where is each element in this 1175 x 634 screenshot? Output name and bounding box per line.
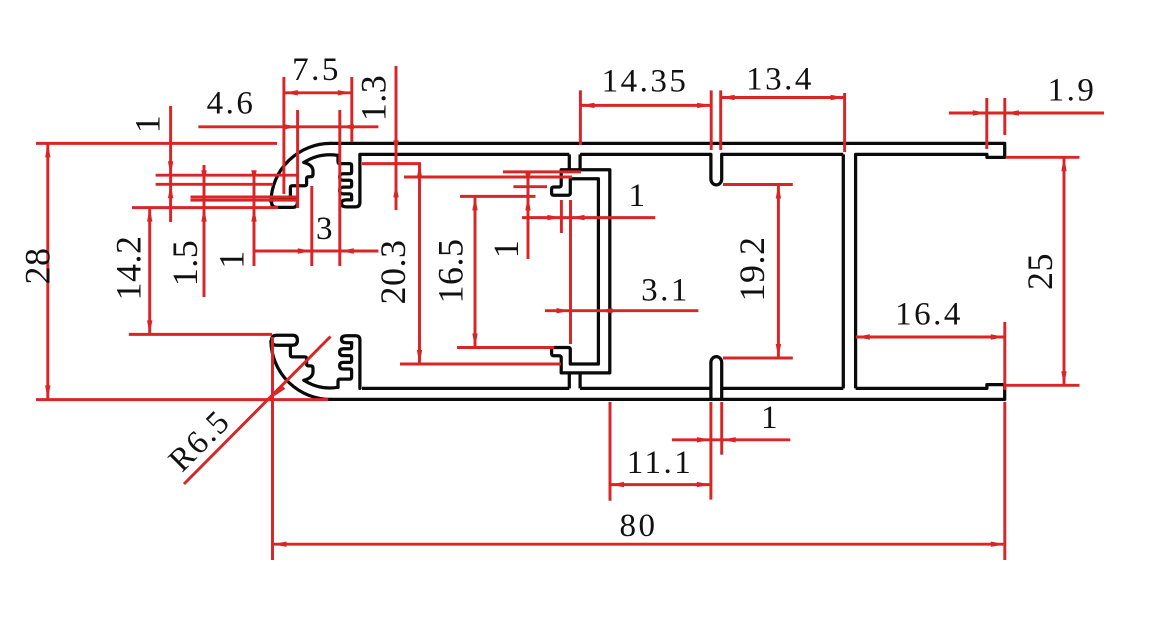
ext line y=184.3 tooth bottom — [156, 183, 273, 186]
svg-text:80: 80 — [620, 508, 658, 544]
dim 3 line — [254, 250, 379, 253]
dim 14.35 line — [580, 104, 711, 107]
bottom hook2 teeth — [338, 343, 352, 388]
top wall inner line seg wall-slot — [722, 153, 844, 156]
ext line y=175.2 tooth top — [156, 174, 297, 177]
dim 14.35 right arrow — [697, 103, 711, 108]
ext line y=334.4 bottom foot top — [129, 333, 272, 336]
dim 1 left-mid up arrow — [251, 208, 256, 222]
svg-text:4.6: 4.6 — [207, 86, 256, 122]
dim 7.5 right arrow — [338, 90, 352, 95]
svg-text:1.5: 1.5 — [165, 240, 205, 287]
ext line x=580.4 — [579, 90, 582, 145]
ext line x=351.8 — [350, 77, 353, 142]
dim 1.9 line — [949, 112, 1104, 115]
ext line x=710.9 — [709, 402, 712, 500]
ext line x=720.7 — [719, 90, 722, 150]
dim 4.6 right-pointing arrow — [284, 124, 298, 129]
dim 14.35 left arrow — [580, 103, 594, 108]
dim 16.5 vertical line — [474, 196, 477, 347]
dim 7.5 left arrow — [284, 90, 298, 95]
dim 1 web line — [522, 216, 655, 219]
dim 3.1 left-pointing arrow — [598, 308, 612, 313]
ext line y=200.2 — [191, 199, 298, 202]
dim 14.2 bottom arrow — [147, 320, 152, 334]
svg-text:1: 1 — [486, 238, 526, 259]
svg-text:16.5: 16.5 — [431, 239, 471, 304]
svg-text:28: 28 — [18, 248, 58, 285]
dim 1.5 up arrow — [201, 208, 206, 222]
ext line y=364 bottom arm — [400, 363, 561, 366]
ext line x=986.8 — [985, 98, 988, 149]
hook2 teeth — [338, 155, 352, 200]
bottom hook1 tooth and leg — [290, 345, 313, 380]
bottom right lip and bottom outer line — [331, 385, 1005, 400]
dim 1.5 down arrow — [201, 170, 206, 184]
dim 14.2 vertical line — [148, 208, 151, 335]
svg-text:20.3: 20.3 — [373, 240, 413, 305]
dim 16.5 bottom arrow — [472, 334, 477, 348]
bottom hook1 foot capsule — [272, 335, 298, 345]
svg-text:25: 25 — [1020, 253, 1060, 290]
dim 20.3 vertical line — [418, 164, 421, 364]
dim 19.2 vertical line — [777, 185, 780, 359]
ext line y=177 arm underside — [404, 176, 572, 179]
dim 1 upper-left down arrow — [168, 161, 173, 175]
svg-text:16.4: 16.4 — [895, 297, 963, 333]
ext line bottom-left y=399.6 — [36, 398, 328, 401]
top-left inner arc — [304, 155, 338, 163]
hook1 top-left tooth and leg — [290, 162, 313, 197]
svg-text:1.9: 1.9 — [1048, 73, 1097, 109]
svg-text:14.2: 14.2 — [109, 236, 149, 301]
ext line x=711.2 — [710, 90, 713, 150]
dim 80 line — [273, 543, 1005, 546]
ext line top-left y=143 — [36, 142, 277, 145]
dim 3 right-pointing arrow — [298, 248, 312, 253]
svg-text:13.4: 13.4 — [746, 62, 814, 98]
dim 13.4 left arrow — [721, 95, 735, 100]
dim 1.9 right-pointing arrow — [973, 110, 987, 115]
ext line y=207.6 foot bottom — [132, 206, 278, 209]
dim 1 hook-foot down arrow — [525, 173, 530, 187]
dim 3.1 right-pointing arrow — [557, 308, 571, 313]
middle wall right face — [854, 154, 857, 388]
dim 80 left arrow — [273, 542, 287, 547]
dim 1 left-mid down arrow — [251, 170, 256, 184]
top-left outer arc R6.5 — [271, 143, 331, 201]
dim 1 hook-foot vertical line — [527, 174, 530, 259]
bottom web right vertical — [578, 373, 581, 389]
dim 19.2 bottom arrow — [776, 344, 781, 358]
ext line y=347.5 bottom hook foot — [457, 346, 554, 349]
C-channel bottom arm and glazing hook — [552, 348, 610, 373]
bottom wall inner line seg web-slot — [580, 387, 711, 390]
bottom hook2 foot and right face — [342, 336, 360, 389]
dim 16.5 top arrow — [472, 196, 477, 210]
C-channel outer wall — [608, 170, 611, 372]
ext line x=610 — [609, 402, 612, 501]
dim 1.9 left-pointing arrow — [1005, 110, 1019, 115]
dim 19.2 top arrow — [776, 185, 781, 199]
dim 11.1 right arrow — [697, 482, 711, 487]
svg-text:7.5: 7.5 — [292, 52, 341, 88]
dim 1.3 up arrow — [393, 183, 398, 197]
dim 13.4 right arrow — [831, 95, 845, 100]
svg-text:1: 1 — [629, 178, 648, 214]
svg-text:1: 1 — [212, 248, 252, 269]
dim 1 web left-pointing arrow — [571, 215, 585, 220]
bottom web left vertical — [568, 373, 571, 389]
dim 1 slot line — [672, 438, 790, 441]
ext line x=721.7 — [720, 402, 723, 455]
ext line y=171.9 arm top — [503, 170, 581, 173]
ext line x=283.9 — [282, 77, 285, 194]
dim 80 right arrow — [991, 542, 1005, 547]
dim 14.2 top arrow — [147, 208, 152, 222]
ext line x=311.8 — [310, 186, 313, 266]
bottom wall inner line seg hook-web — [362, 387, 569, 390]
ext line x=561.4 — [560, 200, 563, 233]
svg-text:11.1: 11.1 — [627, 445, 694, 481]
dim 1.3 down arrow — [393, 140, 398, 154]
dim 16.4 line — [856, 336, 1005, 339]
dim 28 top arrow — [45, 143, 50, 157]
ext line y=385.3 bottom lip top — [1006, 384, 1080, 387]
dim 1.5 vertical line — [203, 165, 206, 297]
dim 1 slot right-pointing arrow — [697, 437, 711, 442]
top wall inner line seg web-hook — [360, 153, 569, 156]
top slot channel — [711, 154, 722, 185]
R6.5 leader arrowhead — [274, 385, 286, 397]
dim 1 web right-pointing arrow — [547, 215, 561, 220]
dim 1 left-mid vertical line — [253, 176, 256, 266]
ext line x=297.6 — [296, 110, 299, 208]
dim 25 vertical line — [1063, 157, 1066, 385]
C-channel inner wall — [597, 179, 600, 364]
dim 4.6 left-pointing arrow — [340, 124, 354, 129]
dim 28 bottom arrow — [45, 385, 50, 399]
svg-text:1: 1 — [761, 400, 780, 436]
ext line y=358 bottom slot top — [723, 357, 793, 360]
dim 13.4 line — [721, 96, 845, 99]
top wall outer line, right end lip — [331, 143, 1005, 157]
svg-text:19.2: 19.2 — [732, 237, 772, 302]
top wall inner line seg slot-web — [580, 153, 711, 156]
dim 28 vertical line — [46, 143, 49, 399]
ext line y=163.6 hook2 shelf — [362, 162, 421, 165]
top web right vertical — [578, 154, 581, 169]
dim 1.3 vertical line — [395, 66, 398, 210]
C-channel top arm and glazing hook — [552, 170, 610, 195]
dim 3 left-pointing arrow — [340, 248, 354, 253]
dim 16.4 left arrow — [856, 334, 870, 339]
dim 25 top arrow — [1061, 157, 1066, 171]
bottom wall inner line seg slot-wall — [722, 387, 844, 390]
dim 1 upper-left vertical line — [169, 106, 172, 222]
ext line x=1004.8 top — [1003, 98, 1006, 135]
svg-text:3.1: 3.1 — [641, 273, 690, 309]
hook1 foot capsule — [272, 198, 298, 208]
svg-text:14.35: 14.35 — [602, 64, 689, 100]
ext line x=1004.8 bottom — [1003, 402, 1006, 560]
dim 7.5 line — [284, 91, 352, 94]
ext line y=196.4 hook foot bottom — [460, 195, 536, 198]
dim 1 hook-foot up arrow — [525, 196, 530, 210]
ext line x=570.5 — [569, 200, 572, 344]
dim 3.1 line — [545, 309, 698, 312]
dim 11.1 left arrow — [610, 482, 624, 487]
dim 11.1 line — [610, 483, 711, 486]
leader line R6.5 — [184, 337, 331, 485]
ext line y=186.7 hook foot top — [513, 185, 547, 188]
ext line y=197 foot top — [191, 196, 298, 199]
middle wall left face — [842, 154, 845, 388]
svg-text:1.3: 1.3 — [354, 75, 394, 122]
dim 20.3 top arrow — [417, 164, 422, 178]
bottom-left outer arc R6.5 — [271, 341, 331, 399]
ext line y=157.3 lip bottom — [1006, 156, 1080, 159]
ext line y=184.5 slot bottom — [723, 183, 793, 186]
ext line x=272.5 left — [271, 337, 274, 560]
dim 20.3 bottom arrow — [417, 350, 422, 364]
bottom wall inner line seg wall-end — [856, 387, 987, 390]
svg-text:1: 1 — [128, 113, 168, 134]
bottom slot channel — [711, 357, 722, 398]
dim 25 bottom arrow — [1061, 371, 1066, 385]
ext line x=339.8 — [338, 110, 341, 266]
dim 1 upper-left up arrow — [168, 184, 173, 198]
svg-text:3: 3 — [316, 211, 335, 247]
dim 16.4 right arrow — [991, 334, 1005, 339]
dim 1 slot left-pointing arrow — [722, 437, 736, 442]
dim 4.6 line — [198, 125, 378, 128]
ext line x=1004.8 mid — [1003, 322, 1006, 390]
bottom-left inner arc — [304, 380, 338, 388]
ext line x=844.6 — [843, 93, 846, 152]
hook2 foot and right face — [342, 154, 360, 207]
top web left vertical — [568, 154, 571, 169]
